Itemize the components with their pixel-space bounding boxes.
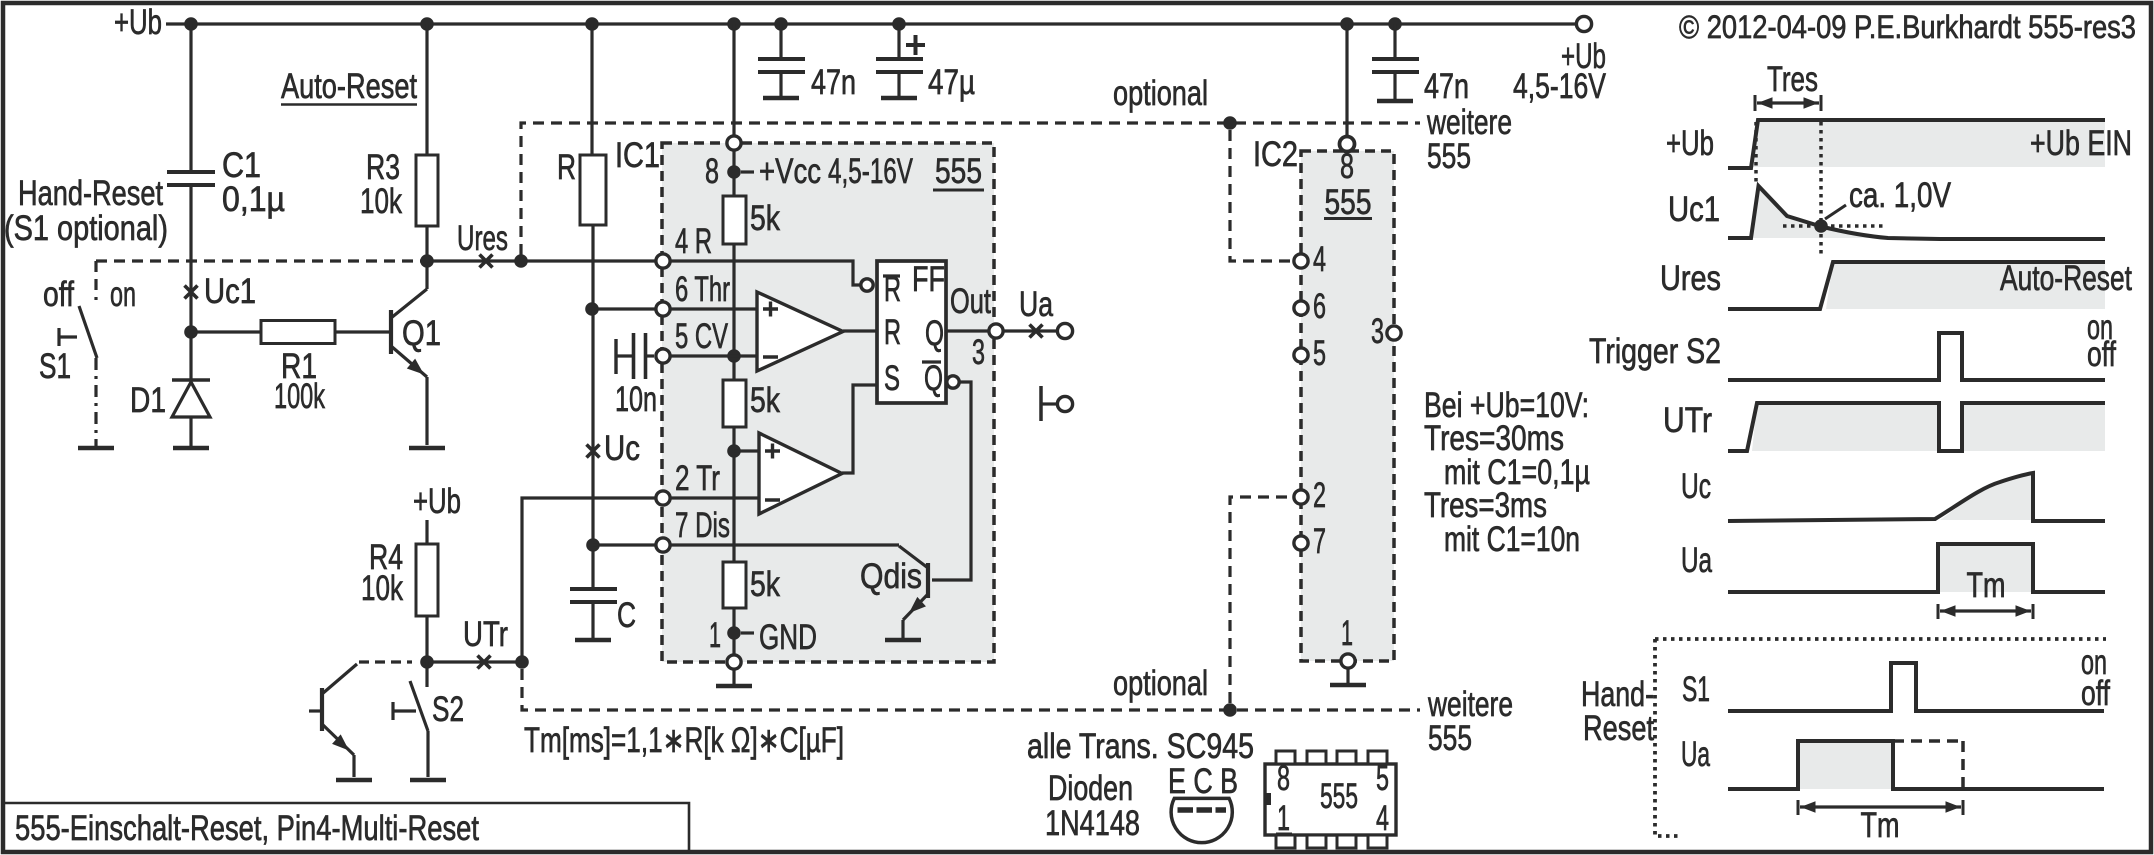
node comp2 plus: [727, 444, 741, 458]
terminal +Ub right: [1576, 16, 1591, 31]
ground IC2: [1346, 668, 1349, 683]
pin 4 circle: [656, 254, 670, 268]
svg-text:S1: S1: [1682, 670, 1710, 709]
svg-text:4: 4: [1313, 240, 1326, 279]
svg-text:3: 3: [1371, 312, 1384, 351]
resistor R1: [261, 321, 335, 344]
svg-text:5: 5: [1313, 334, 1326, 373]
TO-92 package icon: [1171, 798, 1232, 842]
resistor 5k lower: [723, 562, 746, 608]
resistor R4: [416, 544, 438, 616]
svg-text:alle Trans. SC945: alle Trans. SC945: [1027, 727, 1254, 766]
wire rail to R: [590, 24, 593, 155]
dotted Hand-Reset box: [1655, 637, 2106, 641]
switch S2 actuator: [391, 702, 394, 720]
dot ca 1,0V: [1814, 219, 1828, 233]
node CV-divider: [727, 349, 741, 363]
svg-text:UTr: UTr: [463, 615, 508, 654]
dotted guide left: [1754, 122, 1758, 186]
pin 6 circle: [656, 302, 670, 316]
node rail-R3: [420, 17, 434, 31]
waveform Uc trace: [1728, 473, 2105, 521]
wire dashed optional top to IC2 pin4: [1230, 130, 1291, 261]
node R4/S2: [420, 655, 434, 669]
svg-text:1: 1: [1277, 799, 1290, 838]
IC2 pin8 circle: [1340, 137, 1355, 152]
svg-text:4,5-16V: 4,5-16V: [828, 152, 913, 191]
svg-text:555: 555: [1325, 183, 1372, 222]
wire S2 to ground: [426, 731, 429, 777]
svg-text:Out: Out: [950, 282, 991, 321]
waveform +Ub gray: [1752, 120, 2105, 167]
wire rail to IC2 pin8: [1345, 24, 1348, 136]
IC2 pin7: [1294, 536, 1308, 550]
svg-text:Qdis: Qdis: [860, 557, 922, 596]
node rail-47n-2: [1388, 17, 1402, 31]
svg-text:on: on: [110, 275, 136, 314]
Tm dimension 2: [1797, 800, 1800, 815]
svg-text:(S1 optional): (S1 optional): [4, 209, 168, 248]
svg-text:1: 1: [1341, 614, 1353, 653]
node rail-C1: [184, 17, 198, 31]
svg-text:Tres: Tres: [1767, 60, 1818, 99]
pin 2 circle: [656, 491, 670, 505]
marker Uc: [587, 445, 600, 458]
svg-text:Hand-Reset: Hand-Reset: [18, 174, 163, 213]
svg-text:555: 555: [935, 152, 982, 191]
node Ures: [420, 254, 434, 268]
node UTr dashed-box: [515, 655, 529, 669]
wire +Ub rail: [166, 22, 1583, 25]
transistor Q1: [389, 310, 393, 354]
ground pin1: [732, 669, 735, 684]
dotted guide right: [1819, 122, 1823, 258]
svg-text:mit C1=10n: mit C1=10n: [1444, 520, 1580, 559]
IC2 pin5: [1294, 348, 1308, 362]
svg-text:off: off: [2087, 335, 2116, 374]
svg-text:+Ub EIN: +Ub EIN: [2030, 124, 2132, 163]
svg-text:+Ub: +Ub: [1666, 124, 1714, 163]
switch S2 lever: [410, 681, 428, 731]
svg-text:10k: 10k: [361, 569, 403, 608]
svg-text:1N4148: 1N4148: [1045, 804, 1140, 843]
node rail-47n: [774, 17, 788, 31]
svg-text:8: 8: [705, 152, 719, 191]
wire +Ub to R4: [425, 520, 428, 544]
svg-text:© 2012-04-09 P.E.Burkhardt 555: © 2012-04-09 P.E.Burkhardt 555-res3: [1679, 9, 2136, 45]
svg-text:+Ub: +Ub: [114, 3, 162, 42]
svg-text:5k: 5k: [750, 199, 780, 238]
svg-text:8: 8: [1277, 759, 1290, 798]
ground Q1: [409, 446, 445, 451]
ground Qdis: [885, 638, 921, 643]
resistor R3: [416, 155, 438, 226]
IC1 555 internal box: [662, 143, 994, 662]
wire pin2 to UTr node: [522, 498, 656, 662]
waveform Ures gray: [1826, 262, 2105, 309]
waveform +Ub trace: [1728, 120, 2105, 168]
wire C1 to Uc1 node: [189, 187, 192, 332]
wire rail to pin8: [732, 24, 735, 136]
ground 47u: [881, 96, 917, 101]
svg-text:47n: 47n: [1424, 67, 1469, 106]
svg-text:0,1µ: 0,1µ: [222, 180, 285, 219]
wire pin3 to Ua terminal: [1004, 329, 1057, 332]
resistor 5k upper: [723, 196, 746, 244]
waveform UTr trace: [1728, 403, 2105, 451]
svg-text:D1: D1: [130, 381, 166, 420]
svg-text:Uc: Uc: [1681, 467, 1711, 506]
svg-text:7 Dis: 7 Dis: [675, 506, 730, 545]
waveform Uc1 trace: [1728, 186, 2105, 239]
node +Vcc: [727, 165, 741, 179]
IC2 pin4: [1294, 254, 1308, 268]
svg-text:R: R: [884, 313, 901, 352]
svg-text:Ua: Ua: [1019, 285, 1053, 324]
pin 1 circle: [727, 655, 741, 669]
wire dashed optional top: [521, 123, 1420, 255]
wire dashed Q2 collector to UTr node: [359, 660, 412, 663]
capacitor 47n right: [1372, 57, 1419, 61]
capacitor 10n CV: [614, 339, 617, 374]
pin 7 circle: [656, 538, 670, 552]
flip-flop FF box: [877, 261, 946, 403]
ground 47n right: [1377, 99, 1413, 104]
wire comp2 out to FF S: [842, 385, 877, 473]
waveform S1 trace: [1728, 663, 2104, 711]
svg-text:6: 6: [1313, 287, 1326, 326]
FF Qbar bubble: [947, 376, 959, 388]
resistor R timing: [580, 155, 606, 225]
svg-text:IC1: IC1: [615, 136, 660, 175]
marker UTr: [478, 656, 491, 669]
svg-text:5 CV: 5 CV: [675, 317, 728, 356]
waveform Uc gray: [1940, 473, 2033, 520]
waveform Ua gray: [1938, 544, 2033, 592]
DIP-8 package icon: [1265, 764, 1396, 835]
node GND internal: [727, 626, 741, 640]
wire Ures to pin4: [427, 259, 656, 262]
wire pin5 to comp1 minus: [670, 354, 757, 357]
svg-text:Q: Q: [924, 359, 943, 398]
svg-text:47µ: 47µ: [928, 63, 975, 102]
svg-text:Reset: Reset: [1583, 709, 1654, 748]
IC2 pin3: [1387, 326, 1401, 340]
capacitor C1: [167, 170, 215, 174]
wire rail to 47n: [779, 24, 782, 59]
waveform Ua hand trace: [1728, 741, 2104, 789]
wire Thr node to pin6: [592, 307, 656, 310]
title box: [5, 803, 689, 850]
svg-text:S: S: [884, 359, 900, 398]
wire divider to comp2 plus: [734, 449, 759, 452]
marker Ua: [1030, 325, 1043, 338]
svg-text:Tm: Tm: [1861, 806, 1900, 845]
svg-text:555: 555: [1427, 137, 1471, 176]
marker Uc1: [185, 286, 198, 299]
resistor 5k middle: [723, 380, 746, 427]
waveform Trigger S2 trace: [1728, 333, 2105, 380]
svg-text:ca. 1,0V: ca. 1,0V: [1849, 176, 1952, 215]
svg-text:555: 555: [1320, 777, 1358, 816]
comparator comp1: [757, 292, 843, 371]
svg-text:5: 5: [1376, 759, 1389, 798]
svg-text:5k: 5k: [750, 381, 780, 420]
marker Ures: [480, 255, 493, 268]
wire R4 to UTr node: [425, 616, 428, 662]
wire dash-dot S1 to ground: [94, 358, 97, 446]
IC2 pin1: [1341, 654, 1355, 668]
diode D1: [189, 332, 192, 380]
svg-text:10k: 10k: [360, 182, 402, 221]
wire pin8 internal: [732, 150, 735, 196]
svg-text:Auto-Reset: Auto-Reset: [2000, 259, 2132, 298]
node optional bottom: [1223, 703, 1237, 717]
pin 5 circle: [656, 349, 670, 363]
capacitor C timing: [570, 587, 617, 591]
svg-text:10n: 10n: [615, 380, 657, 419]
wire R1 to Q1 base: [335, 330, 391, 333]
svg-text:C: C: [617, 596, 636, 635]
wire comp1 out to FF R: [843, 329, 877, 332]
svg-text:S2: S2: [432, 690, 464, 729]
svg-text:Q1: Q1: [402, 314, 441, 353]
ground S1: [78, 446, 114, 451]
wire Dis node to pin7: [593, 543, 656, 546]
node rail-IC2pin8: [1340, 17, 1354, 31]
plus sign 47u: [906, 43, 925, 47]
switch S2 contact stub: [425, 662, 428, 687]
capacitor 47n: [758, 57, 805, 61]
ground D1: [173, 446, 209, 451]
IC2 pin2: [1294, 490, 1308, 504]
waveform Ua trace: [1728, 544, 2105, 592]
svg-text:Trigger S2: Trigger S2: [1589, 332, 1721, 371]
dotted level 1,0V: [1783, 224, 1886, 228]
svg-text:555-Einschalt-Reset, Pin4-Mult: 555-Einschalt-Reset, Pin4-Multi-Reset: [15, 809, 479, 848]
pointer ca 1,0V: [1825, 205, 1846, 219]
svg-text:8: 8: [1340, 147, 1354, 186]
ground S2: [410, 778, 446, 783]
svg-text:2: 2: [1313, 476, 1326, 515]
ground 47n: [763, 96, 799, 101]
svg-text:Uc: Uc: [604, 429, 640, 468]
wire dashed optional bottom to IC2 pin2: [1230, 497, 1291, 703]
comparator comp2: [759, 433, 842, 514]
wire rail to 47n right: [1393, 24, 1396, 59]
svg-text:Q: Q: [925, 314, 944, 353]
svg-text:Ua: Ua: [1681, 735, 1710, 774]
Tm dimension 1: [1937, 604, 1940, 619]
wire rail to 47u: [897, 24, 900, 59]
FF Rbar bubble: [861, 279, 873, 291]
wire R3 to Ures node: [425, 226, 428, 261]
wire pin4 R net: [670, 261, 860, 285]
svg-text:4: 4: [1376, 799, 1389, 838]
svg-text:off: off: [43, 275, 74, 314]
wire rail to R3: [425, 24, 428, 155]
node optional top: [1223, 116, 1237, 130]
svg-text:UTr: UTr: [1663, 401, 1712, 440]
svg-text:optional: optional: [1113, 74, 1208, 113]
terminal Ua: [1057, 323, 1072, 338]
svg-text:555: 555: [1428, 719, 1472, 758]
svg-text:2 Tr: 2 Tr: [675, 459, 720, 498]
waveform Ua hand gray: [1798, 741, 1893, 789]
waveform Ures trace: [1728, 262, 2105, 309]
svg-text:R: R: [557, 148, 576, 187]
svg-text:47n: 47n: [811, 63, 856, 102]
svg-text:IC2: IC2: [1253, 135, 1298, 174]
wire pin2 to comp2 minus: [670, 496, 759, 499]
svg-text:+Vcc: +Vcc: [759, 152, 821, 191]
wire FF Q to pin3: [946, 329, 988, 332]
waveform Ua hand dashed: [1893, 739, 1963, 743]
switch S1 lever: [79, 306, 97, 358]
svg-text:Dioden: Dioden: [1048, 769, 1133, 808]
svg-text:4,5-16V: 4,5-16V: [1513, 67, 1606, 106]
IC2 555 box: [1301, 151, 1394, 661]
ground C: [575, 638, 611, 643]
svg-text:Tm[ms]=1,1∗R[k Ω]∗C[µF]: Tm[ms]=1,1∗R[k Ω]∗C[µF]: [524, 721, 844, 760]
wire Uc1 to R1: [191, 330, 261, 333]
waveform Uc1 gray: [1751, 186, 1888, 238]
svg-text:S1: S1: [39, 347, 71, 386]
wire dashed S1 to Ures node: [96, 259, 427, 262]
wire pin6 to comp1 plus: [670, 307, 757, 310]
svg-text:optional: optional: [1113, 664, 1208, 703]
svg-text:off: off: [2081, 674, 2110, 713]
wire 5k to pin1: [732, 608, 735, 655]
wire R to Thr node: [591, 225, 594, 309]
node rail-pin8: [727, 17, 741, 31]
node Thr: [585, 302, 599, 316]
wire divider upper: [732, 244, 735, 380]
svg-text:1: 1: [709, 616, 721, 655]
svg-text:GND: GND: [759, 618, 817, 657]
svg-text:Uc1: Uc1: [1668, 190, 1720, 229]
svg-text:Ua: Ua: [1681, 541, 1712, 580]
svg-text:100k: 100k: [274, 377, 325, 416]
wire pin7 to Qdis collector: [670, 543, 899, 546]
svg-text:3: 3: [972, 333, 985, 372]
switch S1 actuator: [57, 328, 60, 346]
svg-text:Tm: Tm: [1967, 566, 2006, 605]
wire UTr node to R4 node: [427, 660, 522, 663]
waveform UTr gray: [1752, 403, 1939, 451]
node Dis: [586, 538, 600, 552]
svg-text:FF: FF: [912, 260, 945, 299]
wire dashed optional bottom: [522, 669, 1420, 710]
svg-text:Uc1: Uc1: [204, 272, 256, 311]
wire rail to C1: [189, 24, 192, 170]
svg-text:4 R: 4 R: [675, 222, 712, 261]
node Ures optional branch: [514, 254, 528, 268]
wire Qbar to Qdis base: [932, 382, 971, 580]
IC2 pin6: [1294, 301, 1308, 315]
wire divider lower: [732, 427, 735, 562]
svg-text:7: 7: [1313, 522, 1326, 561]
svg-text:Ures: Ures: [1660, 259, 1721, 298]
svg-text:Ures: Ures: [457, 219, 508, 258]
node Uc1/R1/D1: [184, 325, 198, 339]
svg-text:E C B: E C B: [1168, 762, 1238, 801]
node rail-47u: [892, 17, 906, 31]
pin 3 circle: [989, 324, 1003, 338]
svg-text:5k: 5k: [750, 565, 780, 604]
svg-text:6 Thr: 6 Thr: [675, 270, 730, 309]
svg-text:Auto-Reset: Auto-Reset: [281, 67, 417, 106]
svg-text:+Ub: +Ub: [413, 482, 461, 521]
pin 8 circle: [727, 136, 741, 150]
transistor Q2 optional: [309, 709, 322, 712]
wire Thr node down to C: [591, 309, 594, 589]
ground Q2: [336, 778, 372, 783]
capacitor 47u polarized: [876, 57, 923, 61]
node rail-R: [585, 17, 599, 31]
terminal aux output: [1039, 386, 1043, 421]
transistor Qdis: [926, 563, 930, 598]
